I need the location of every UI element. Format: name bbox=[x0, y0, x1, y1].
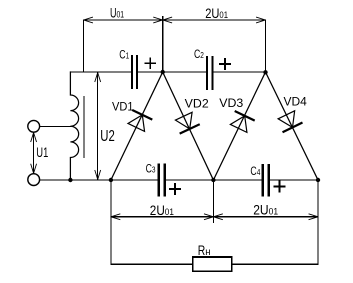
node bottom-left junction bbox=[109, 178, 113, 182]
wire top rail left bbox=[70, 71, 130, 73]
node coil-bottom junction bbox=[68, 178, 72, 182]
node top-left junction bbox=[161, 70, 165, 74]
dimension extension line right bbox=[265, 20, 267, 73]
dimension U01 (top left) bbox=[84, 5, 163, 23]
svg-text:U1: U1 bbox=[36, 144, 48, 160]
svg-text:C1: C1 bbox=[119, 47, 129, 61]
dimension U1 bbox=[31, 133, 49, 174]
inductor winding L (transformer) bbox=[70, 72, 78, 180]
diode VD1 bbox=[111, 72, 163, 180]
wire terminal top to coil tap bbox=[40, 126, 71, 128]
capacitor C3 bbox=[146, 161, 180, 195]
svg-text:VD4: VD4 bbox=[284, 95, 308, 109]
dimension 2U01 (top right) bbox=[163, 5, 266, 23]
wire top rail mid bbox=[138, 71, 206, 73]
node bottom-right junction bbox=[316, 178, 320, 182]
wire bottom rail left bbox=[40, 179, 158, 181]
capacitor C2 bbox=[194, 47, 230, 89]
dimension extension middle bottom bbox=[212, 180, 214, 223]
resistor RH (load) bbox=[193, 242, 232, 271]
wire bottom rail right bbox=[270, 179, 318, 181]
node bottom-mid junction bbox=[211, 178, 215, 182]
svg-text:C2: C2 bbox=[194, 47, 204, 61]
svg-text:C4: C4 bbox=[250, 164, 260, 178]
svg-text:U2: U2 bbox=[100, 128, 115, 145]
transformer primary terminal bottom bbox=[28, 174, 40, 186]
svg-text:C3: C3 bbox=[146, 161, 156, 175]
dimension 2U01 (bottom left) bbox=[111, 202, 213, 220]
wire load bottom left bbox=[111, 263, 193, 265]
diode VD3 bbox=[213, 72, 265, 180]
diode VD2 bbox=[163, 72, 214, 180]
diode VD4 bbox=[266, 72, 319, 180]
dimension U2 bbox=[95, 73, 115, 180]
svg-text:VD3: VD3 bbox=[219, 96, 243, 110]
wire top rail right bbox=[214, 71, 266, 73]
transformer core bbox=[83, 97, 85, 158]
dimension extension line middle bbox=[162, 17, 164, 73]
capacitor C1 bbox=[119, 47, 155, 88]
transformer primary terminal top bbox=[28, 120, 40, 132]
dimension extension line left bbox=[83, 20, 85, 72]
svg-text:VD2: VD2 bbox=[185, 96, 209, 110]
wire load right vertical bbox=[317, 180, 319, 264]
wire load left vertical bbox=[110, 180, 112, 264]
svg-text:VD1: VD1 bbox=[112, 99, 134, 113]
capacitor C4 bbox=[250, 164, 284, 195]
node top-right junction bbox=[263, 70, 267, 74]
wire bottom rail mid bbox=[166, 179, 262, 181]
dimension 2U01 (bottom right) bbox=[213, 202, 318, 220]
wire load bottom right bbox=[232, 263, 318, 265]
